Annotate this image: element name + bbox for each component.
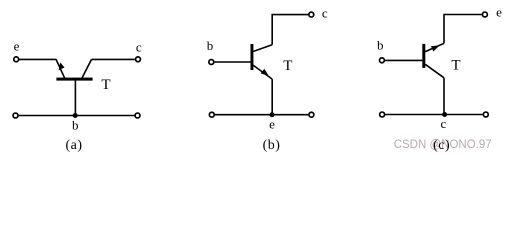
svg-text:b: b [377, 37, 384, 52]
wire b to transistor (c) [385, 59, 423, 61]
svg-text:(a): (a) [65, 138, 82, 153]
terminal bottom-left (c) [380, 112, 385, 117]
transistor T (b) [251, 44, 273, 79]
svg-text:c: c [441, 116, 447, 131]
transistor T (a) [56, 59, 93, 80]
svg-text:T: T [283, 58, 292, 74]
svg-text:c: c [136, 39, 142, 54]
wire collector up (b) [272, 15, 308, 45]
svg-text:e: e [269, 117, 275, 132]
svg-text:c: c [322, 6, 328, 21]
terminal b (b) [209, 60, 214, 65]
svg-text:(c): (c) [433, 138, 450, 153]
terminal bottom-left (a) [13, 113, 18, 118]
svg-text:T: T [451, 57, 460, 73]
terminal bottom-right (a) [135, 113, 140, 118]
svg-text:b: b [72, 117, 79, 132]
node e junction (b) [270, 112, 275, 117]
terminal c (b) [309, 12, 314, 17]
wire e to transistor (a) [19, 58, 56, 60]
wire transistor to c (a) [92, 58, 135, 60]
svg-text:e: e [14, 39, 20, 54]
bottom rail wire (a) [19, 115, 135, 117]
terminal c (a) [136, 57, 141, 62]
wire b to transistor (b) [214, 61, 250, 63]
transistor T (c) [422, 43, 444, 78]
node c junction (c) [442, 112, 447, 117]
terminal e (c) [482, 12, 487, 17]
terminal bottom-right (c) [483, 112, 488, 117]
terminal b (c) [379, 58, 384, 63]
terminal e (a) [14, 57, 19, 62]
wire collector down (c) [443, 78, 445, 115]
terminal bottom-left (b) [209, 112, 214, 117]
wire emitter up (c) [444, 15, 482, 44]
svg-text:e: e [496, 5, 502, 20]
wire emitter down (b) [271, 79, 273, 115]
svg-text:b: b [207, 38, 214, 53]
node b junction (a) [73, 113, 78, 118]
svg-text:T: T [101, 77, 110, 93]
bottom rail wire (c) [385, 114, 483, 116]
bottom rail wire (b) [215, 114, 309, 116]
wire base lead (a) [74, 79, 76, 116]
svg-text:(b): (b) [263, 138, 281, 153]
terminal bottom-right (b) [309, 112, 314, 117]
